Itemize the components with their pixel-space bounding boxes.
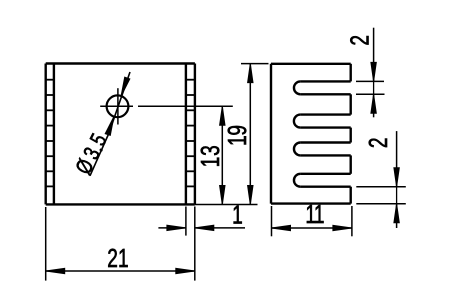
svg-text:1: 1	[118, 244, 129, 272]
svg-text:1: 1	[223, 135, 251, 146]
svg-text:2: 2	[365, 137, 393, 148]
svg-text:1: 1	[196, 157, 224, 168]
svg-text:1: 1	[232, 201, 243, 229]
svg-text:1: 1	[314, 201, 325, 229]
svg-text:2: 2	[346, 35, 374, 46]
svg-text:2: 2	[107, 244, 118, 272]
svg-text:9: 9	[223, 125, 251, 136]
svg-text:3: 3	[196, 145, 224, 156]
